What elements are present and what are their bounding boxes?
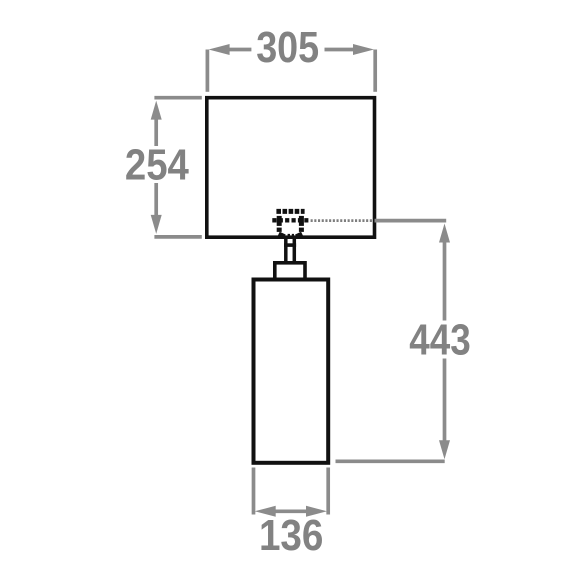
lamp neck left bar <box>284 239 288 263</box>
443 bottom leader line <box>336 459 445 463</box>
bulb bottom center dashes <box>288 234 294 237</box>
305 right shaft <box>325 48 356 52</box>
bulb right edge blocks <box>299 216 304 226</box>
254 top extension line <box>154 96 201 100</box>
bulb bottom taper right <box>296 234 302 237</box>
305 right arrow <box>353 44 374 55</box>
bulb (dashed) top edge <box>276 209 304 214</box>
443 up arrow <box>439 224 450 243</box>
svg-text:443: 443 <box>409 316 471 365</box>
254 lower shaft <box>154 183 158 217</box>
bulb bottom taper left <box>279 234 285 237</box>
bulb centre axis black dashes <box>272 218 308 222</box>
443 down arrow <box>439 440 450 459</box>
305 left arrow <box>209 44 230 55</box>
136 right arrow <box>306 506 327 517</box>
136 shaft <box>272 509 309 513</box>
svg-text:254: 254 <box>125 141 189 190</box>
254 bottom extension line <box>154 235 201 239</box>
svg-text:305: 305 <box>256 23 319 72</box>
136 left extension line <box>252 468 256 515</box>
svg-text:136: 136 <box>259 511 324 560</box>
443 lower shaft <box>443 359 447 444</box>
254 down arrow <box>151 215 162 234</box>
centre axis gray dotted (inside shade) <box>311 219 373 222</box>
bulb left edge blocks <box>277 216 282 226</box>
443 upper shaft <box>443 240 447 321</box>
lamp neck right bar <box>293 239 297 263</box>
254 upper shaft <box>154 118 158 147</box>
136 right extension line <box>326 468 330 515</box>
305 right extension line <box>373 50 377 92</box>
lamp holder box <box>275 263 305 280</box>
136 left arrow <box>255 506 276 517</box>
305 left shaft <box>228 48 252 52</box>
254 up arrow <box>151 101 162 120</box>
lamp shade outline <box>207 98 375 238</box>
lamp base column <box>254 280 329 463</box>
lamp neck cross band <box>284 243 296 247</box>
centre axis gray solid leader to 443 line <box>375 219 447 223</box>
305 left extension line <box>206 50 210 92</box>
